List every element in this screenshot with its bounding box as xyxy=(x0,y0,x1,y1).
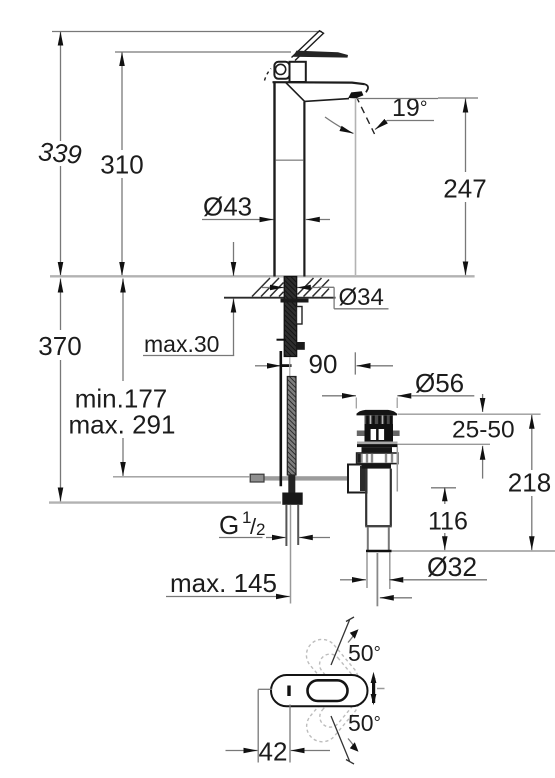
top view 50deg upper xyxy=(331,617,381,666)
svg-text:310: 310 xyxy=(100,150,143,180)
drain lever arm xyxy=(250,474,349,482)
dimension 247 xyxy=(438,98,487,276)
svg-text:2: 2 xyxy=(256,520,265,539)
top view 50deg lower xyxy=(331,710,381,764)
faucet cartridge cap xyxy=(274,62,305,82)
counter top line xyxy=(50,275,475,277)
dimension D43 xyxy=(202,192,330,222)
drain body xyxy=(365,447,397,526)
dimension 339 xyxy=(37,32,83,277)
basin lower reference line xyxy=(398,443,490,445)
svg-text:370: 370 xyxy=(38,331,81,361)
drain plug side pins xyxy=(357,431,400,437)
pull rod link xyxy=(281,364,292,367)
dimension 25-50 xyxy=(452,394,515,479)
top view lever ring xyxy=(308,680,348,701)
svg-text:Ø34: Ø34 xyxy=(339,284,384,311)
drain clevis xyxy=(348,465,367,493)
dimension 310 xyxy=(100,52,143,276)
spout stream vertical reference xyxy=(356,99,439,276)
dimension max.30 xyxy=(143,242,234,357)
dimension 42 xyxy=(226,689,331,766)
faucet lever closed blade xyxy=(293,51,348,58)
svg-text:90: 90 xyxy=(309,349,338,379)
dimension 90 xyxy=(255,349,393,379)
top view ghost handle lower xyxy=(300,633,364,701)
svg-text:247: 247 xyxy=(443,174,486,204)
dimension D34 xyxy=(262,284,389,311)
faucet lever open position xyxy=(265,31,324,81)
svg-text:42: 42 xyxy=(259,737,288,767)
dimension max.145 xyxy=(166,568,290,598)
faucet mounting flange xyxy=(281,299,309,303)
svg-text:max. 145: max. 145 xyxy=(170,568,277,598)
svg-text:Ø32: Ø32 xyxy=(427,552,477,582)
drain plug knurl xyxy=(365,416,394,425)
spout stream dashed line xyxy=(356,96,375,134)
svg-text:339: 339 xyxy=(37,136,83,170)
dimension 370 xyxy=(38,279,81,502)
rod end reference line xyxy=(113,476,250,478)
svg-text:50°: 50° xyxy=(348,710,381,736)
dimension 218 xyxy=(508,415,551,550)
shank centre gap line xyxy=(289,357,291,377)
drain pipe xyxy=(366,527,392,551)
dimension 116 xyxy=(428,487,468,550)
svg-text:218: 218 xyxy=(508,468,551,498)
dimension 19deg xyxy=(325,94,434,134)
svg-text:max. 291: max. 291 xyxy=(69,410,176,440)
svg-text:50°: 50° xyxy=(348,640,381,666)
tailpipe arrow xyxy=(380,597,412,599)
dimension G half xyxy=(219,508,330,540)
threaded rod xyxy=(287,377,296,476)
dimension min.177 max.291 xyxy=(69,279,176,477)
dimension D32 xyxy=(340,552,487,582)
top view ghost handle upper xyxy=(300,680,364,748)
top view lever tick xyxy=(287,686,290,697)
rod lower solid xyxy=(288,475,295,493)
lower reference plane xyxy=(49,501,281,503)
shank side bracket xyxy=(297,307,303,325)
drain plug cap xyxy=(357,410,398,416)
faucet shank through counter xyxy=(284,277,297,357)
drain flange xyxy=(357,442,398,448)
dimension D56 xyxy=(322,368,474,409)
top view capsule body xyxy=(271,675,368,706)
G half fitting xyxy=(282,493,302,505)
shank nut xyxy=(297,342,305,350)
drain lower band xyxy=(362,464,392,469)
shank left tick xyxy=(277,339,286,341)
faucet body column xyxy=(275,82,305,277)
svg-text:Ø43: Ø43 xyxy=(203,192,252,222)
top view swing arrow bar xyxy=(371,672,385,705)
svg-text:G: G xyxy=(219,510,239,540)
drain knurled nut xyxy=(357,453,398,464)
faucet spout xyxy=(273,82,369,101)
svg-text:116: 116 xyxy=(428,508,468,536)
svg-text:Ø56: Ø56 xyxy=(415,368,464,398)
drain flange reference line xyxy=(398,413,541,415)
counter hatching xyxy=(252,278,329,297)
counter bottom line xyxy=(224,297,376,299)
svg-text:25-50: 25-50 xyxy=(452,417,515,444)
drain plug body xyxy=(365,424,394,442)
drain pipe extension lines xyxy=(367,553,390,607)
svg-text:max.30: max.30 xyxy=(144,331,219,357)
drain upper band xyxy=(362,447,393,453)
pipe end reference line xyxy=(392,550,555,552)
extension line top 339 xyxy=(52,31,322,33)
extension line top 310 xyxy=(115,51,291,53)
pull rod xyxy=(279,351,282,486)
supply pipe below fitting xyxy=(286,505,298,604)
